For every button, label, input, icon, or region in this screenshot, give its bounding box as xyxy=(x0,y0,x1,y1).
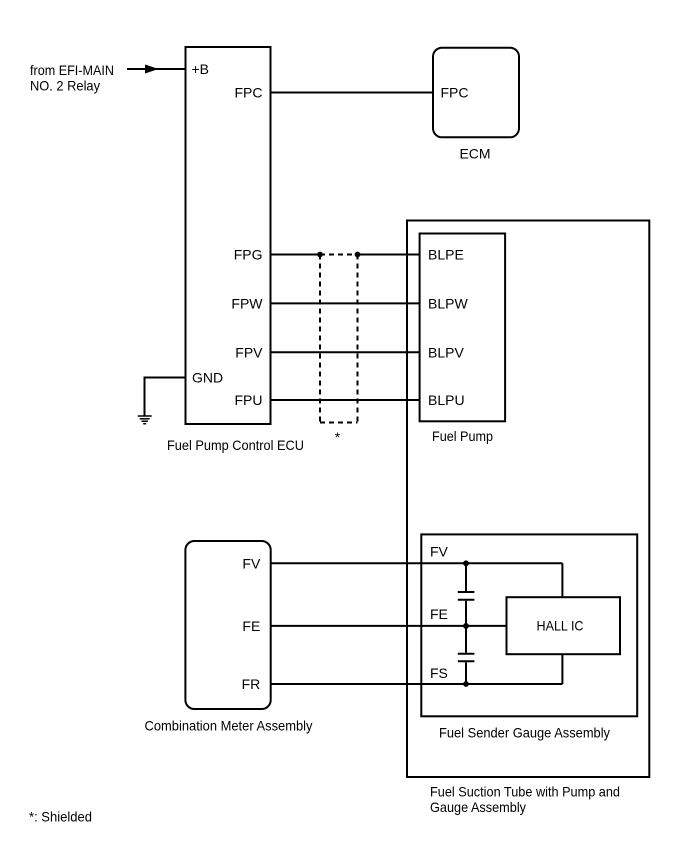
svg-text:Fuel Pump Control ECU: Fuel Pump Control ECU xyxy=(167,437,304,453)
ground symbol xyxy=(138,416,152,424)
svg-text:FPC: FPC xyxy=(235,85,263,101)
wire GND xyxy=(145,378,186,416)
wire from relay xyxy=(127,68,185,70)
svg-text:FPG: FPG xyxy=(234,247,263,263)
svg-text:FPV: FPV xyxy=(235,344,263,360)
Fuel Pump box xyxy=(420,234,506,422)
svg-text:Fuel Pump: Fuel Pump xyxy=(432,428,493,444)
junction dot FE xyxy=(463,623,469,629)
svg-text:BLPV: BLPV xyxy=(428,344,464,360)
Fuel Sender Gauge Assembly box xyxy=(421,534,637,716)
svg-text:FS: FS xyxy=(430,665,448,681)
junction dot FS xyxy=(463,681,469,687)
wire FV down to HALL IC xyxy=(561,563,563,597)
wire FR to FS xyxy=(271,683,562,685)
junction dot FV xyxy=(463,560,469,566)
arrowhead xyxy=(145,65,159,74)
svg-text:FPU: FPU xyxy=(235,392,263,408)
svg-text:ECM: ECM xyxy=(459,146,490,162)
capacitor C1 plates xyxy=(458,591,475,593)
wire FPV to BLPV xyxy=(271,351,420,353)
svg-text:Gauge Assembly: Gauge Assembly xyxy=(430,799,526,815)
junction dot right on FPG wire xyxy=(355,252,361,258)
capacitor C2 plates xyxy=(458,653,475,655)
Combination Meter Assembly box xyxy=(185,541,270,709)
svg-text:FR: FR xyxy=(242,676,261,692)
svg-text:+B: +B xyxy=(192,61,210,77)
svg-text:BLPW: BLPW xyxy=(428,295,468,311)
svg-text:*: Shielded: *: Shielded xyxy=(29,809,92,825)
ECM box xyxy=(433,48,519,138)
svg-text:FE: FE xyxy=(242,618,260,634)
wire FPU to BLPU xyxy=(271,399,420,401)
junction dot left on FPG wire xyxy=(317,252,323,258)
svg-text:FPC: FPC xyxy=(441,85,469,101)
svg-text:HALL IC: HALL IC xyxy=(537,618,584,634)
svg-text:NO. 2 Relay: NO. 2 Relay xyxy=(30,77,100,93)
svg-text:FPW: FPW xyxy=(231,295,263,311)
wire FV xyxy=(271,562,562,564)
svg-text:FV: FV xyxy=(242,555,261,571)
svg-text:FE: FE xyxy=(430,606,448,622)
svg-text:Fuel Sender Gauge Assembly: Fuel Sender Gauge Assembly xyxy=(439,725,610,741)
svg-text:Fuel Suction Tube with Pump an: Fuel Suction Tube with Pump and xyxy=(430,783,620,799)
wire FPC xyxy=(271,92,433,94)
svg-text:FV: FV xyxy=(430,543,449,559)
svg-text:*: * xyxy=(335,429,341,445)
svg-text:Combination Meter Assembly: Combination Meter Assembly xyxy=(145,718,313,734)
HALL IC box U1 xyxy=(507,597,621,654)
svg-text:BLPE: BLPE xyxy=(428,247,464,263)
Fuel Pump Control ECU box xyxy=(186,47,271,424)
wire FE xyxy=(271,625,507,627)
wire HALL IC down to FS xyxy=(561,655,563,684)
shield dashed box xyxy=(320,254,358,256)
sender resistor chain vertical wire xyxy=(465,563,467,591)
svg-text:from EFI-MAIN: from EFI-MAIN xyxy=(30,62,114,78)
wire FPG to BLPE xyxy=(271,254,320,256)
svg-text:GND: GND xyxy=(192,369,223,385)
svg-text:BLPU: BLPU xyxy=(428,392,465,408)
wire FPW to BLPW xyxy=(271,302,420,304)
Fuel Suction Tube outer box xyxy=(407,221,649,778)
